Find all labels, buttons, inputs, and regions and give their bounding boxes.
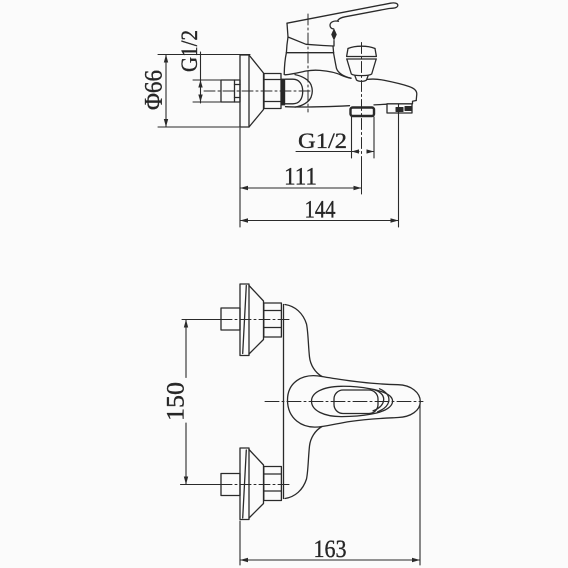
centerline handle (vertical dash-dot) xyxy=(307,14,309,112)
wall flange (escutcheon), side view xyxy=(240,55,249,127)
svg-text:144: 144 xyxy=(305,197,336,224)
handle outer silhouette (top view) xyxy=(288,376,421,427)
spout aerator xyxy=(387,104,412,113)
dim G1/2 bottom arrows xyxy=(352,149,375,153)
dim G1/2 top dimension line xyxy=(193,52,221,103)
dim G1/2 top arrows xyxy=(198,80,202,102)
lever rotation arrow (solid) xyxy=(331,28,337,40)
lever front curl xyxy=(330,21,339,29)
dim Phi66 dimension line xyxy=(158,55,250,128)
body shoulder line to diverter xyxy=(334,53,352,79)
lower wall flange xyxy=(240,448,249,520)
handle grip oval xyxy=(311,386,392,416)
extension line from wall (left) xyxy=(239,128,241,227)
body wall edge (vertical) xyxy=(283,305,285,499)
svg-text:111: 111 xyxy=(284,164,317,191)
upper flange inner edge xyxy=(243,286,247,354)
body end cap (dome) xyxy=(295,75,312,108)
handle escutcheon xyxy=(287,23,333,46)
dim 111 dimension line xyxy=(240,187,362,189)
svg-text:G1/2: G1/2 xyxy=(298,128,347,153)
body lower neck xyxy=(285,427,322,499)
body upper neck xyxy=(285,305,322,377)
lower nipple xyxy=(221,474,240,496)
dim 150 dimension line xyxy=(185,320,187,485)
shower outlet (thick cap) xyxy=(351,108,375,117)
diverter knob xyxy=(348,46,375,48)
centerline diverter/shower outlet (vertical dash-dot) xyxy=(361,43,363,161)
lower flange inner edge xyxy=(243,450,247,518)
threaded nipple G1/2, side view xyxy=(221,80,240,102)
dim Phi66 arrows xyxy=(164,55,168,128)
dim 144 dimension line xyxy=(240,220,399,222)
handle centerline (horizontal dash-dot) xyxy=(265,401,423,403)
svg-text:G1/2: G1/2 xyxy=(177,30,202,72)
upper nipple xyxy=(221,308,240,330)
centerline inlet (horizontal dash-dot) xyxy=(204,90,312,92)
extension line outlet centerline xyxy=(361,160,363,194)
upper nut xyxy=(264,303,282,337)
handle neck below escutcheon xyxy=(284,53,286,75)
upper wall flange xyxy=(240,284,249,356)
dim G1/2 bottom: extension lines xyxy=(296,117,374,158)
lower centerline xyxy=(181,484,222,486)
lower nut xyxy=(264,467,282,501)
faucet body, side view xyxy=(285,70,351,78)
grip inner arcs xyxy=(373,390,384,411)
svg-text:150: 150 xyxy=(163,382,190,421)
svg-text:Φ66: Φ66 xyxy=(141,70,168,110)
connection nut, side view xyxy=(264,74,281,109)
dim 163 dimension line xyxy=(240,559,420,561)
svg-text:163: 163 xyxy=(314,536,347,563)
chrome ring xyxy=(281,79,285,106)
handle lever xyxy=(287,3,398,23)
dim 163 extension lines xyxy=(240,404,420,565)
upper centerline xyxy=(182,319,221,321)
extension line spout outlet center xyxy=(398,104,400,227)
handle inner rounded rectangle xyxy=(334,390,378,414)
